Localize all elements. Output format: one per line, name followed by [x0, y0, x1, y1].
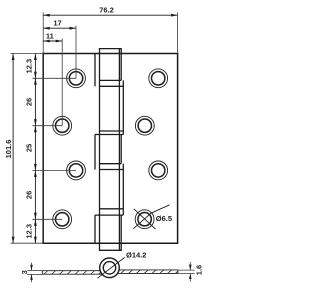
- svg-text:26: 26: [25, 191, 34, 199]
- svg-text:11: 11: [46, 32, 54, 41]
- svg-text:3: 3: [20, 270, 29, 274]
- svg-text:12.3: 12.3: [25, 224, 34, 239]
- svg-text:76.2: 76.2: [99, 6, 114, 15]
- svg-text:17: 17: [53, 19, 61, 28]
- svg-text:Ø14.2: Ø14.2: [126, 250, 146, 259]
- svg-text:26: 26: [25, 98, 34, 106]
- svg-text:101.6: 101.6: [4, 140, 13, 159]
- svg-text:25: 25: [25, 144, 34, 152]
- svg-text:Ø6.5: Ø6.5: [156, 214, 172, 223]
- svg-text:12.3: 12.3: [25, 59, 34, 74]
- svg-text:1.6: 1.6: [195, 265, 204, 275]
